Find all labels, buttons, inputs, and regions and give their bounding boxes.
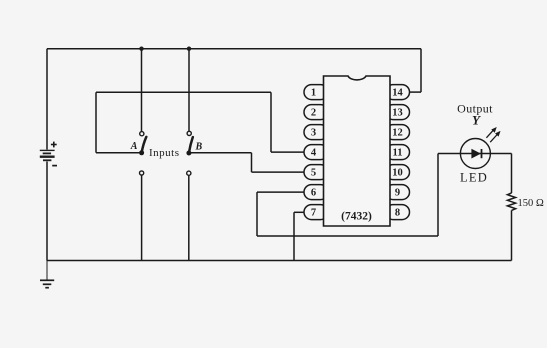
svg-text:4: 4 bbox=[311, 148, 317, 159]
wire battery to bottom rail bbox=[46, 162, 48, 261]
wire switch B drop from top rail bbox=[188, 49, 190, 132]
wire drop x251 bbox=[251, 153, 253, 172]
svg-text:LED: LED bbox=[460, 170, 488, 184]
svg-text:1: 1 bbox=[311, 88, 316, 99]
ground bbox=[40, 261, 54, 288]
wire left rail from top to battery bbox=[46, 49, 48, 150]
svg-text:13: 13 bbox=[392, 108, 403, 119]
wire pin14 riser to top rail bbox=[420, 49, 422, 92]
battery - label bbox=[52, 165, 57, 167]
svg-text:8: 8 bbox=[395, 208, 400, 219]
svg-text:150 Ω: 150 Ω bbox=[518, 198, 544, 209]
svg-text:7: 7 bbox=[311, 208, 316, 219]
IC U1 body with notch bbox=[324, 76, 391, 226]
wire pin6 drop x257 bbox=[256, 192, 258, 236]
wire pin 6 stub bbox=[257, 191, 305, 193]
svg-text:12: 12 bbox=[392, 128, 403, 139]
wire LED column riser x438 bbox=[437, 154, 439, 237]
svg-text:Y: Y bbox=[472, 113, 481, 128]
node junction dot B on top rail bbox=[187, 47, 191, 51]
wire pin7 drop to ground rail bbox=[293, 212, 295, 260]
IC U1 pin bubbles right (14-8) bbox=[386, 85, 410, 220]
svg-text:Inputs: Inputs bbox=[149, 147, 180, 159]
battery + label bbox=[51, 142, 57, 148]
switch A lower contact bbox=[140, 171, 144, 175]
wire switch B common right run bbox=[191, 152, 252, 154]
svg-text:A: A bbox=[130, 141, 138, 152]
svg-text:6: 6 bbox=[311, 188, 316, 199]
pin number labels bbox=[311, 88, 404, 219]
node junction dot A on top rail bbox=[139, 47, 143, 51]
wire overpass y92 to pin4 column bbox=[96, 91, 271, 93]
svg-text:3: 3 bbox=[311, 128, 316, 139]
wire drop x271 bbox=[270, 92, 272, 152]
resistor R1 zigzag bbox=[507, 193, 515, 210]
wire pin 14 stub bbox=[407, 91, 421, 93]
switch A bbox=[139, 132, 146, 156]
switch B bbox=[186, 131, 192, 155]
wire top rail bbox=[47, 48, 421, 50]
wire switch A lower throw to ground rail bbox=[141, 175, 143, 261]
svg-text:10: 10 bbox=[392, 168, 403, 179]
IC U1 pin bubbles left (1-7) bbox=[304, 85, 328, 220]
LED arrow 2 bbox=[490, 132, 500, 143]
wire switch A common left run bbox=[96, 152, 140, 154]
svg-text:14: 14 bbox=[392, 88, 403, 99]
svg-text:11: 11 bbox=[393, 148, 403, 159]
wire into pin 5 bbox=[252, 171, 305, 173]
switch B lower contact bbox=[187, 171, 191, 175]
LED D1 bbox=[460, 139, 490, 169]
svg-text:9: 9 bbox=[395, 188, 400, 199]
wire resistor top lead bbox=[511, 154, 513, 194]
svg-text:5: 5 bbox=[311, 168, 316, 179]
LED arrow 1 bbox=[486, 128, 496, 138]
battery B1 bbox=[40, 150, 55, 160]
wire into pin 4 bbox=[271, 151, 305, 153]
wire riser x96 bbox=[95, 92, 97, 152]
wire switch B lower throw to ground rail bbox=[188, 175, 190, 260]
svg-text:B: B bbox=[195, 142, 203, 153]
svg-text:2: 2 bbox=[311, 108, 316, 119]
wire through LED to resistor column bbox=[438, 153, 512, 155]
wire pin 7 stub bbox=[294, 211, 305, 213]
wire under-IC run to LED column bbox=[257, 235, 438, 237]
svg-text:(7432): (7432) bbox=[341, 211, 372, 223]
wire resistor bottom lead bbox=[511, 210, 513, 260]
wire bottom rail bbox=[47, 260, 512, 262]
wire switch A drop from top rail bbox=[141, 49, 143, 132]
